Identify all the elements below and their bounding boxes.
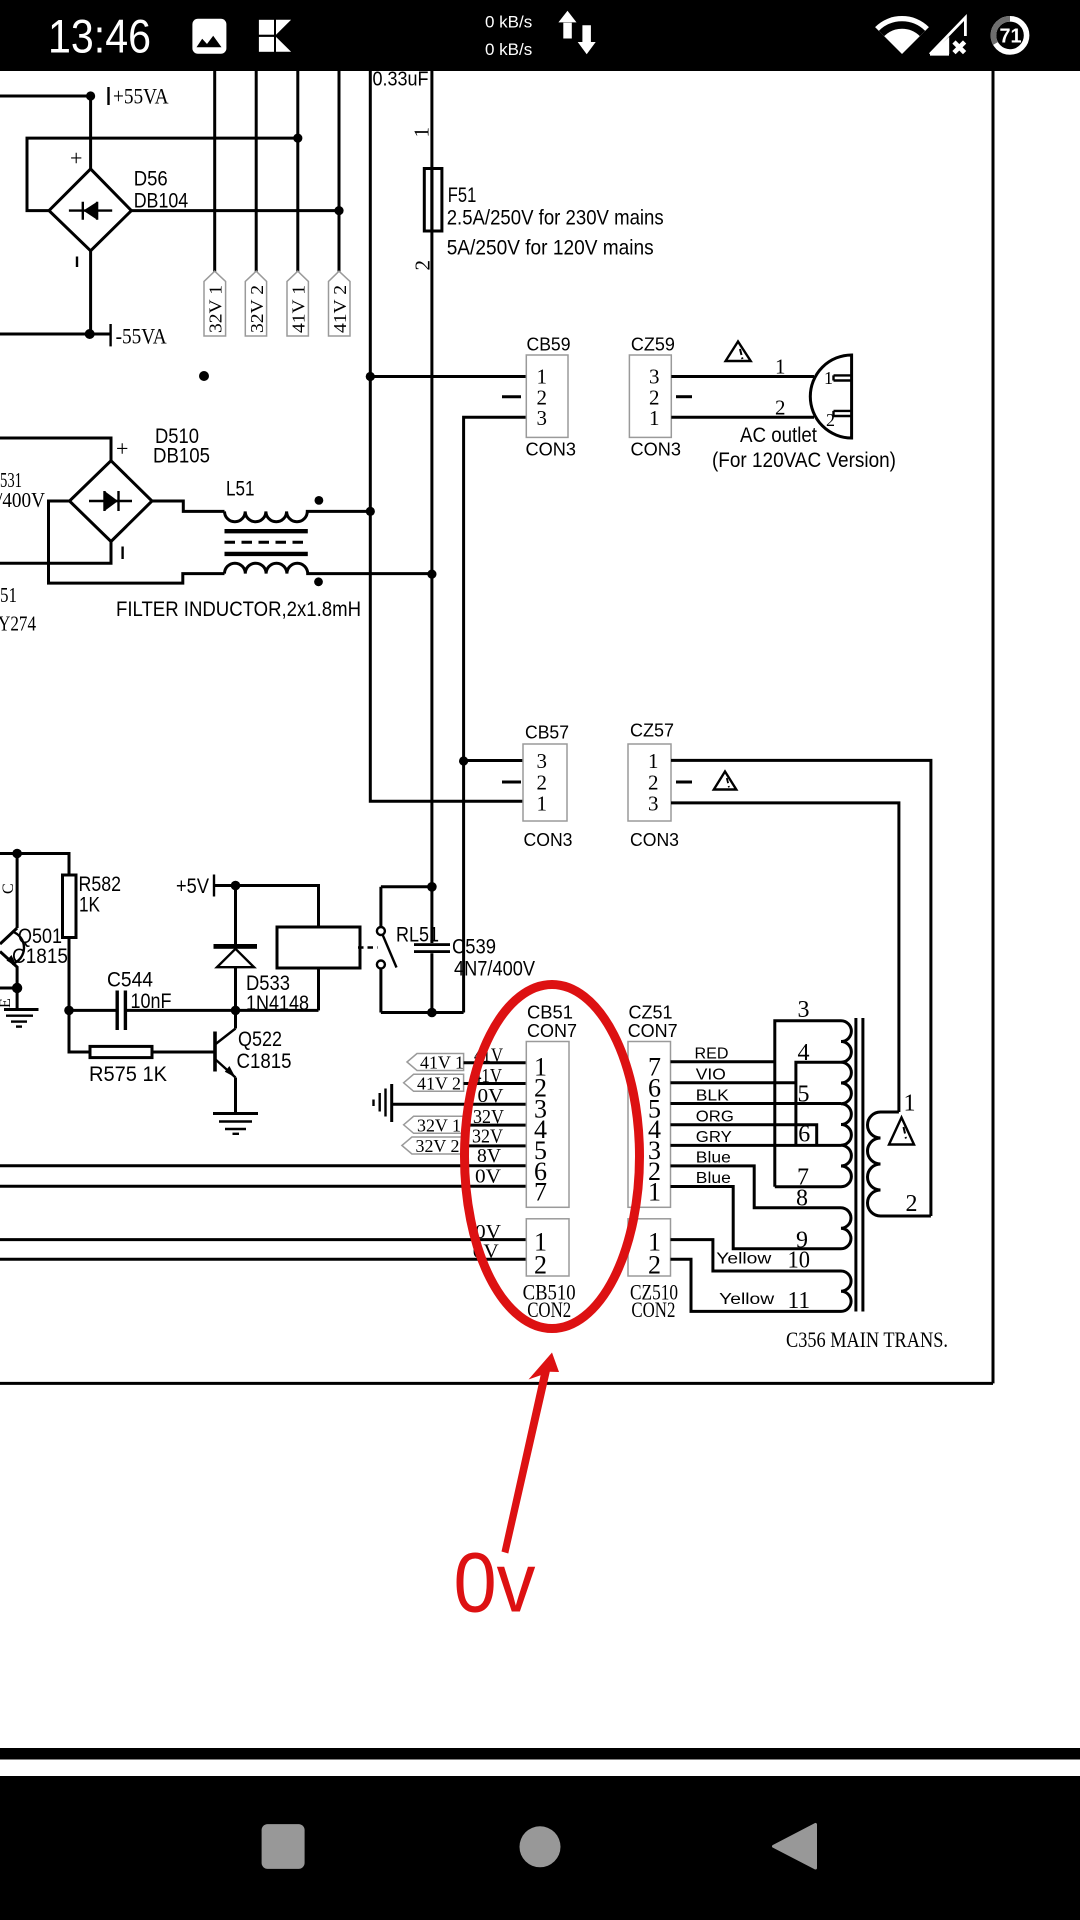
svg-text:4: 4 bbox=[798, 1040, 810, 1066]
svg-text:0V: 0V bbox=[478, 1085, 505, 1107]
polarity dot top bbox=[315, 496, 324, 505]
connector CB57 bbox=[523, 723, 573, 851]
wire tap4 riser bbox=[796, 1062, 841, 1145]
flag 32V 2 left bbox=[402, 1136, 464, 1156]
polarity dot bottom bbox=[314, 577, 323, 586]
connector CB59 bbox=[526, 335, 577, 460]
wire bridge bottom to -55VA bbox=[89, 251, 92, 334]
wire CZ51 pin2 Blue to tap8 bbox=[671, 1166, 842, 1208]
wire -55VA rail bbox=[0, 333, 111, 336]
flag 41V 1 left bbox=[407, 1053, 464, 1073]
transformer secondary winding B bbox=[841, 1208, 851, 1249]
svg-text:Yellow: Yellow bbox=[716, 1251, 772, 1268]
wire Q501 emitter rail bbox=[0, 988, 17, 1010]
warning triangle CZ59 bbox=[726, 342, 751, 362]
svg-text:/400V: /400V bbox=[0, 488, 45, 512]
connector CB51 bbox=[526, 1002, 577, 1207]
flag 41V 2 bbox=[329, 271, 351, 336]
svg-text:C1815: C1815 bbox=[12, 945, 68, 968]
svg-text:32V 2: 32V 2 bbox=[247, 285, 267, 333]
wire +5V rail bbox=[214, 886, 319, 928]
node L51 lower junction bbox=[427, 570, 436, 579]
svg-text:71: 71 bbox=[1000, 26, 1022, 48]
fuse F51 bbox=[424, 169, 442, 232]
ground Q522 bbox=[213, 1114, 258, 1134]
svg-text:41V 2: 41V 2 bbox=[330, 285, 350, 333]
svg-text:2: 2 bbox=[648, 1251, 661, 1280]
svg-text:0 kB/s: 0 kB/s bbox=[485, 13, 532, 32]
STATUSBAR bbox=[0, 0, 1080, 71]
wire CZ59 pin1 to outlet bbox=[671, 416, 814, 419]
wire CB51 pin3 bbox=[392, 1103, 527, 1106]
wire CZ51 pin3 GRY to tap6 bbox=[671, 1144, 842, 1147]
svg-text:-55VA: -55VA bbox=[116, 324, 167, 349]
wire CB51 pin5 bbox=[464, 1144, 527, 1147]
wire CB510 pin2 bbox=[0, 1258, 526, 1261]
capacitor C544 bbox=[117, 991, 125, 1031]
node Q501 collector junction bbox=[12, 849, 22, 859]
svg-text:0v: 0v bbox=[454, 1536, 536, 1630]
svg-text:1: 1 bbox=[648, 749, 659, 773]
wire CB510 pin1 bbox=[0, 1238, 526, 1241]
connector CZ57 bbox=[628, 721, 679, 851]
node -55VA junction bbox=[85, 329, 95, 339]
red arrow bbox=[502, 1353, 560, 1554]
svg-text:32V 2: 32V 2 bbox=[416, 1136, 460, 1156]
cellular no-signal icon bbox=[930, 18, 965, 55]
wire mains L vertical bbox=[370, 71, 523, 801]
wire CZ510 pin2 to tap11 bbox=[671, 1259, 842, 1311]
wire mains to relay rail bbox=[462, 761, 465, 1013]
svg-text:AC outlet: AC outlet bbox=[740, 424, 817, 447]
wire D56 left loop bbox=[27, 138, 298, 211]
power label +5V bbox=[176, 875, 214, 899]
page bottom black band bbox=[0, 1748, 1080, 1760]
svg-text:2: 2 bbox=[826, 410, 835, 430]
wire CZ51 pin4 ORG bbox=[671, 1125, 817, 1146]
svg-text:+: + bbox=[116, 436, 128, 461]
wire CB51 pin6 bbox=[0, 1164, 526, 1167]
wire switch top rail bbox=[381, 885, 432, 888]
svg-text:CB59: CB59 bbox=[527, 335, 571, 355]
resistor R582 bbox=[63, 875, 77, 938]
wire D510 - output bbox=[0, 542, 111, 564]
svg-text:2.5A/250V for 230V mains: 2.5A/250V for 230V mains bbox=[447, 206, 664, 229]
svg-text:L51: L51 bbox=[226, 478, 255, 501]
svg-text:F51: F51 bbox=[448, 184, 477, 207]
svg-text:51: 51 bbox=[0, 583, 17, 607]
svg-text:CON3: CON3 bbox=[630, 830, 679, 850]
battery 71 bbox=[993, 19, 1026, 52]
red ellipse highlight bbox=[465, 985, 640, 1329]
svg-text:3: 3 bbox=[648, 792, 659, 816]
svg-text:CON7: CON7 bbox=[628, 1021, 678, 1041]
svg-text:C1815: C1815 bbox=[237, 1050, 292, 1073]
home circle button bbox=[520, 1826, 561, 1867]
svg-text:3: 3 bbox=[798, 997, 810, 1023]
wire CZ59 pin2 stub bbox=[676, 395, 692, 398]
svg-text:ORG: ORG bbox=[696, 1109, 734, 1126]
svg-text:CZ57: CZ57 bbox=[630, 721, 674, 741]
wire +55VA rail bbox=[0, 95, 91, 98]
svg-text:6: 6 bbox=[798, 1122, 810, 1148]
ground Q501 bbox=[4, 1010, 39, 1027]
svg-text:8: 8 bbox=[796, 1186, 808, 1212]
wire CB51 pin7 bbox=[0, 1185, 526, 1188]
svg-text:4N7/400V: 4N7/400V bbox=[454, 958, 535, 981]
svg-text:R575 1K: R575 1K bbox=[89, 1063, 167, 1086]
svg-text:0.33uF: 0.33uF bbox=[373, 69, 429, 91]
wire tap3 riser bbox=[775, 1021, 841, 1187]
svg-text:D56: D56 bbox=[134, 168, 168, 191]
svg-text:RED: RED bbox=[695, 1046, 729, 1063]
svg-text:CB51: CB51 bbox=[527, 1002, 573, 1022]
svg-text:FILTER INDUCTOR,2x1.8mH: FILTER INDUCTOR,2x1.8mH bbox=[116, 598, 361, 621]
flag 41V 2 left bbox=[404, 1073, 464, 1093]
gallery notification icon bbox=[192, 19, 226, 54]
svg-text:BLK: BLK bbox=[696, 1087, 730, 1104]
node R582 bottom junction bbox=[64, 1006, 74, 1016]
svg-text:CON3: CON3 bbox=[526, 440, 577, 460]
up arrow bbox=[558, 11, 576, 39]
flag 32V 1 left bbox=[404, 1115, 464, 1135]
svg-text:1: 1 bbox=[410, 127, 434, 138]
node CB57 pin3 junction bbox=[459, 756, 468, 765]
warning triangle primary bbox=[889, 1118, 914, 1145]
wire tap7 bbox=[775, 1185, 841, 1188]
ground CB51 pin3 rotated bbox=[374, 1084, 392, 1122]
wire 41V 2 bbox=[338, 71, 341, 276]
svg-text:1: 1 bbox=[904, 1091, 916, 1117]
transformer core bbox=[856, 1018, 863, 1312]
svg-text:C544: C544 bbox=[107, 969, 153, 992]
resistor R575 bbox=[90, 1046, 152, 1057]
wire top rail to R582 bbox=[0, 854, 69, 876]
relay switch bbox=[358, 887, 397, 1013]
svg-text:0V: 0V bbox=[475, 1166, 502, 1188]
status bar background bbox=[0, 0, 1080, 71]
wire 32V 2 bbox=[255, 71, 258, 276]
wire CB51 pin1 bbox=[464, 1061, 527, 1064]
bridge rectifier D510 bbox=[70, 436, 153, 559]
svg-text:C356 MAIN TRANS.: C356 MAIN TRANS. bbox=[786, 1327, 948, 1352]
wire D510 + output bbox=[0, 438, 111, 461]
svg-text:+5V: +5V bbox=[176, 875, 209, 898]
AC outlet symbol bbox=[810, 355, 851, 438]
transformer secondary winding A bbox=[841, 1021, 851, 1187]
svg-text:DB104: DB104 bbox=[134, 190, 189, 213]
svg-text:2: 2 bbox=[775, 396, 786, 420]
svg-text:2: 2 bbox=[534, 1251, 547, 1280]
navigation bar background bbox=[0, 1776, 1080, 1920]
svg-text:DB105: DB105 bbox=[153, 445, 210, 468]
flag 32V 2 bbox=[245, 271, 267, 336]
wire CZ57 pin2 stub bbox=[676, 781, 692, 784]
warning triangle CZ57 bbox=[714, 772, 737, 790]
node mains L / L51 junction bbox=[366, 507, 375, 516]
wire base rail bbox=[69, 1010, 90, 1052]
wifi icon bbox=[875, 16, 929, 54]
wire bridge top to +55VA bbox=[89, 96, 92, 169]
svg-text:3: 3 bbox=[537, 406, 548, 430]
wire CZ51 pin1 Blue to tap9 bbox=[671, 1187, 842, 1249]
node Q501 emitter junction bbox=[12, 983, 22, 993]
svg-text:1K: 1K bbox=[79, 894, 100, 917]
svg-text:Blue: Blue bbox=[696, 1150, 731, 1167]
relay coil RL51 bbox=[277, 927, 360, 1010]
svg-text:1: 1 bbox=[824, 368, 833, 388]
svg-text:C539: C539 bbox=[452, 936, 496, 959]
svg-text:CON2: CON2 bbox=[631, 1297, 675, 1322]
svg-text:Blue: Blue bbox=[696, 1170, 731, 1187]
inductor L51 bottom winding bbox=[225, 563, 432, 573]
svg-text:3: 3 bbox=[537, 749, 548, 773]
svg-text:1: 1 bbox=[648, 1178, 661, 1207]
svg-text:1: 1 bbox=[649, 406, 660, 430]
svg-text:41V 1: 41V 1 bbox=[420, 1053, 464, 1073]
back triangle button bbox=[774, 1825, 816, 1869]
transformer primary winding bbox=[868, 1112, 931, 1216]
svg-text:5A/250V for 120V mains: 5A/250V for 120V mains bbox=[447, 236, 654, 259]
wire coil rail left bbox=[69, 1009, 116, 1012]
svg-text:CON7: CON7 bbox=[527, 1021, 577, 1041]
node C539 top junction bbox=[427, 882, 437, 892]
svg-text:CON3: CON3 bbox=[631, 440, 682, 460]
NAVBAR bbox=[0, 1748, 1080, 1920]
svg-text:41V 2: 41V 2 bbox=[417, 1073, 461, 1093]
svg-text:32V: 32V bbox=[473, 1106, 504, 1128]
svg-text:(For 120VAC Version): (For 120VAC Version) bbox=[712, 449, 896, 472]
wire CB51 pin4 bbox=[464, 1124, 527, 1127]
inductor L51 core bbox=[225, 531, 308, 554]
node stray dot bbox=[199, 371, 209, 381]
transistor Q522 bbox=[215, 1010, 236, 1113]
wire CZ57 pin1 to primary bbox=[671, 760, 931, 1216]
wire R582 bottom bbox=[68, 938, 71, 1011]
node D533 anode junction bbox=[231, 1006, 241, 1016]
wire D510 left to L51 bottom bbox=[49, 501, 225, 583]
svg-text:+55VA: +55VA bbox=[113, 84, 169, 109]
node mains L / CB59 pin1 junction bbox=[366, 372, 375, 381]
diode D533 bbox=[214, 886, 258, 1011]
flag 32V 1 bbox=[204, 271, 226, 336]
svg-text:GRY: GRY bbox=[696, 1129, 732, 1146]
connector CZ51 bbox=[628, 1002, 678, 1207]
svg-text:CON2: CON2 bbox=[527, 1297, 571, 1322]
connector CZ59 bbox=[629, 335, 681, 460]
inductor L51 top winding bbox=[225, 511, 371, 521]
svg-text:CB57: CB57 bbox=[525, 723, 569, 743]
ANNOT bbox=[454, 985, 640, 1630]
svg-text:32V 1: 32V 1 bbox=[206, 285, 226, 333]
svg-text:1: 1 bbox=[775, 355, 786, 379]
page border right bbox=[992, 71, 995, 1383]
wire CB59 pin3 bbox=[464, 417, 527, 761]
wire D510 right to L51 top bbox=[152, 501, 225, 511]
svg-text:1: 1 bbox=[537, 792, 548, 816]
wire CZ51 pin5 BLK to tap5 bbox=[671, 1102, 842, 1105]
svg-text:13:46: 13:46 bbox=[48, 9, 151, 62]
svg-text:7: 7 bbox=[534, 1178, 547, 1207]
svg-text:1N4148: 1N4148 bbox=[246, 992, 309, 1015]
K app notification icon bbox=[259, 20, 291, 52]
wire mains N vertical through fuse bbox=[430, 71, 433, 887]
down arrow bbox=[578, 25, 596, 54]
wire D56 right rail bbox=[131, 209, 339, 212]
power label +55VA bbox=[109, 84, 169, 109]
recent apps square button bbox=[262, 1824, 305, 1869]
svg-text:32V 1: 32V 1 bbox=[417, 1115, 461, 1135]
flag 41V 1 bbox=[287, 271, 309, 336]
svg-text:2: 2 bbox=[411, 260, 435, 271]
power label -55VA bbox=[111, 324, 167, 349]
connector CZ510 bbox=[628, 1219, 678, 1322]
svg-text:0 kB/s: 0 kB/s bbox=[485, 40, 532, 59]
svg-text:2: 2 bbox=[906, 1191, 918, 1217]
bridge rectifier D56 bbox=[49, 146, 131, 268]
svg-text:Q522: Q522 bbox=[238, 1028, 282, 1051]
wire switch bottom rail bbox=[381, 1011, 464, 1014]
node +55VA junction bbox=[86, 91, 95, 100]
page border bottom bbox=[0, 1382, 993, 1385]
wire CZ51 pin7 RED bbox=[671, 1060, 775, 1063]
capacitor C539 bbox=[414, 887, 450, 1013]
wire 41V 1 bbox=[296, 71, 299, 276]
wire CZ57 pin3 to primary bbox=[671, 803, 899, 1112]
node D533 cathode junction bbox=[231, 881, 241, 891]
svg-text:Y274: Y274 bbox=[0, 612, 36, 636]
svg-text:5: 5 bbox=[798, 1082, 810, 1108]
wire CB57 pin2 stub bbox=[502, 781, 521, 784]
wire CZ59 pin3 to outlet bbox=[671, 375, 814, 378]
svg-text:CZ51: CZ51 bbox=[629, 1002, 673, 1022]
transformer secondary winding C bbox=[841, 1271, 851, 1311]
wire CB59 pin2 stub bbox=[502, 395, 521, 398]
svg-text:C: C bbox=[0, 883, 17, 894]
svg-text:CZ59: CZ59 bbox=[631, 335, 675, 355]
svg-text:VIO: VIO bbox=[696, 1067, 726, 1084]
wire CB57 pin3 bbox=[464, 759, 523, 762]
svg-text:Yellow: Yellow bbox=[719, 1291, 775, 1308]
svg-text:E: E bbox=[0, 998, 14, 1008]
wire R575 to Q522 base bbox=[152, 1051, 214, 1054]
wire CZ510 pin1 to tap10 bbox=[671, 1240, 842, 1271]
node C539 bottom junction bbox=[427, 1008, 437, 1018]
connector CB510 bbox=[523, 1219, 576, 1322]
wire CB59 pin1 bbox=[370, 375, 526, 378]
svg-text:CON3: CON3 bbox=[524, 830, 573, 850]
svg-text:41V 1: 41V 1 bbox=[289, 285, 309, 333]
node loop junction bbox=[293, 134, 302, 143]
transistor Q501 bbox=[0, 854, 24, 1009]
wire coil rail mid bbox=[127, 1009, 319, 1012]
svg-text:8V: 8V bbox=[477, 1145, 502, 1167]
wire CZ51 pin6 VIO bbox=[671, 1081, 796, 1084]
node right rail junction bbox=[334, 206, 343, 215]
wire 32V 1 bbox=[213, 71, 216, 276]
wire CB51 pin2 bbox=[464, 1082, 527, 1085]
svg-text:+: + bbox=[70, 146, 82, 171]
